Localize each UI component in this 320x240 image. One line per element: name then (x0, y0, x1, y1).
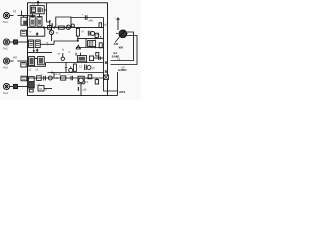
wire transformer to rail (91, 46, 93, 49)
head block B4 (38, 57, 45, 65)
wire B1 to B2 (33, 14, 40, 17)
node dot on wire y38.6 (95, 38, 97, 40)
pot arrow triangle (76, 45, 80, 49)
svg-text:п: п (45, 89, 47, 92)
svg-text:Гн1: Гн1 (3, 20, 8, 24)
shield frame F1 (56, 17, 71, 28)
output transistor T7 block (78, 76, 84, 84)
resistor R4 (37, 76, 42, 81)
svg-text:у8: у8 (92, 67, 95, 70)
wire tick x=52 on rail1 (51, 24, 53, 27)
node dot (49, 20, 51, 22)
node dot (64, 27, 66, 29)
svg-text:у18: у18 (83, 89, 88, 92)
svg-text:ы1 ы2: ы1 ы2 (54, 73, 61, 76)
svg-text:АПЗ: АПЗ (119, 90, 125, 94)
svg-text:БЗМО: БЗМО (118, 68, 127, 72)
head block B1 (30, 6, 44, 14)
capacitor C15 dark box (14, 84, 18, 88)
capacitor box on rail1 (48, 26, 52, 30)
wire rail3 y=62.5 (46, 62, 104, 64)
capacitor C14 (71, 76, 73, 80)
component right column lower (99, 43, 102, 48)
wire J3 to border (18, 60, 28, 62)
svg-text:+у: +у (29, 31, 32, 33)
wire stub down (49, 21, 51, 28)
wire T7 down (80, 84, 82, 96)
wire stub down to C2 (23, 16, 25, 18)
svg-text:+: + (68, 74, 70, 77)
svg-text:п: п (115, 18, 117, 20)
capacitor C7 (14, 40, 18, 44)
speck on border a (105, 61, 107, 64)
svg-text:С2: С2 (79, 66, 83, 69)
connector J2 (3, 39, 9, 45)
node blob (77, 40, 79, 42)
transformer TR1 (88, 41, 96, 47)
svg-text:2: 2 (69, 50, 71, 54)
svg-text:ап: ап (58, 53, 61, 56)
tick below signal wire (62, 49, 64, 51)
capacitor C2 block (21, 17, 27, 25)
wire right outer vertical (117, 72, 119, 96)
wire J4 to border (18, 86, 28, 88)
capacitor C10 vertical (62, 53, 64, 57)
svg-text:+: + (82, 14, 84, 17)
svg-text:Т1: Т1 (56, 32, 59, 35)
wire rail y=17.5 (71, 17, 104, 19)
resistor R6 bottom right (95, 80, 98, 84)
component y18 (78, 87, 79, 91)
svg-text:м: м (47, 42, 49, 45)
speck on border b (105, 70, 107, 73)
wire signal y=44.3 to 41 (40, 39, 103, 45)
speed regulator arrow (115, 30, 125, 42)
wire motor to battery inner (111, 36, 138, 65)
transistor T2 (49, 30, 53, 34)
connector J3 (3, 58, 9, 64)
wire corner x=47 (45, 63, 47, 67)
capacitor C13 (44, 76, 46, 81)
node dot on rail5 (87, 77, 89, 79)
wire vertical x=44.8 rail1 to rail2 (44, 27, 46, 36)
small box near bus mid (96, 52, 99, 56)
svg-text:Гн2: Гн2 (3, 47, 8, 51)
wire rail1 y=27.5 (28, 26, 104, 28)
box with X on border (104, 75, 109, 80)
svg-text:у4В: у4В (96, 34, 101, 37)
connector J1 input jack (3, 12, 9, 18)
head block B3 (29, 57, 35, 66)
transistor T5 (87, 66, 91, 70)
wire J2 to border (18, 41, 28, 43)
svg-text:у6: у6 (36, 69, 39, 72)
wire tick on separator 1 (75, 53, 77, 56)
electrolytic block CB (35, 40, 40, 48)
resistor box on rail5 (61, 76, 66, 80)
wire right bus x=103.5 (104, 18, 118, 92)
tick arrow down from CA (33, 48, 35, 52)
resistor R2 vertical (76, 28, 79, 36)
wire stub up from J1 wire (21, 11, 23, 16)
capacitor box near bus (95, 33, 98, 37)
svg-text:М: М (82, 31, 84, 34)
wire motor to battery outer (111, 32, 134, 61)
small box right of A2 (89, 56, 93, 61)
transistor T6 (48, 76, 52, 80)
svg-text:дб: дб (104, 24, 107, 27)
svg-text:НЛ: НЛ (13, 56, 17, 60)
node dot (56, 77, 58, 79)
wire rail5 y=78 (28, 77, 104, 79)
wire vertical x=86 (85, 39, 87, 48)
capacitor blocks lower left (29, 77, 35, 82)
capacitor C16 bars (99, 56, 101, 60)
transistor T3 (91, 31, 95, 35)
svg-text:ГЛ: ГЛ (13, 10, 16, 14)
wire rail2 y=36.2 (28, 35, 45, 37)
arrow end of rail1 (43, 26, 45, 28)
svg-text:Сб: Сб (117, 58, 121, 61)
node dot on bus (100, 36, 101, 37)
resistor R1 (58, 26, 64, 29)
svg-text:т: т (56, 24, 57, 26)
wire B1 right lead (44, 3, 50, 22)
capacitor C11 (65, 63, 67, 73)
resistor box mid (88, 75, 92, 79)
wire y=88.5 row (44, 88, 52, 90)
svg-text:у4Б: у4Б (89, 19, 94, 23)
svg-text:КМ: КМ (119, 46, 124, 50)
wire J1 to border (18, 15, 28, 17)
node dot (51, 72, 53, 74)
amp block A2 (77, 56, 86, 62)
trimmer circle (71, 24, 74, 27)
wire y=47.5 (76, 47, 104, 49)
component marks right column dB (99, 23, 102, 28)
antenna tick with arrow (37, 1, 39, 5)
transistor T4 (69, 68, 73, 72)
head block B2 (30, 17, 35, 27)
svg-text:+: + (41, 74, 43, 77)
wire motor feed vertical (117, 18, 120, 30)
transistor T1 (66, 25, 70, 29)
wire y=15.5 inside (28, 15, 36, 17)
border frame of schematic (28, 3, 108, 96)
trimmer box B2b (37, 17, 42, 27)
wire link B3-B4 (35, 58, 38, 60)
svg-text:Гн3: Гн3 (3, 66, 8, 70)
capacitor C12 pair (85, 65, 87, 71)
separator rail y=52.6 (28, 52, 53, 54)
capacitor C3 (85, 15, 87, 20)
diode D1 (54, 26, 56, 29)
capacitor C9 block (21, 63, 26, 67)
electrolytic block CA (29, 40, 34, 48)
wire y=66.5 lower left (28, 66, 46, 68)
wire rail4 y=72.5 (48, 72, 104, 74)
capacitor C4 pair (88, 31, 90, 36)
svg-text:М: М (40, 87, 43, 91)
wire tick on separator 2 (80, 53, 82, 56)
capacitor C8 block (21, 30, 27, 36)
svg-text:Гн4: Гн4 (3, 91, 8, 95)
connector J4 (3, 83, 9, 89)
capacitor C17 block (21, 76, 27, 81)
junction tick with arrow on rail2 (36, 33, 38, 36)
wire y=58 to bus (94, 57, 104, 59)
svg-text:у13: у13 (84, 80, 89, 84)
motor M1 (119, 30, 127, 38)
resistor R3 vertical (73, 64, 76, 71)
wire tick rail4 to rail5 (53, 73, 55, 79)
svg-text:т: т (47, 45, 48, 47)
wire bottom extension to output jack (108, 95, 118, 97)
tick arrow on separator (36, 49, 38, 52)
node dot (95, 47, 97, 49)
svg-text:у5: у5 (29, 69, 32, 72)
motor switch box M (38, 86, 44, 91)
